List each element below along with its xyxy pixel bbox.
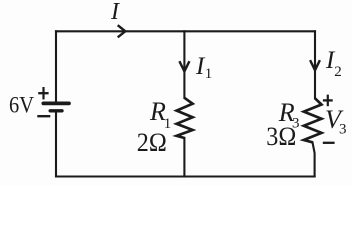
svg-text:1: 1 (205, 66, 213, 82)
svg-text:3: 3 (339, 122, 347, 138)
svg-text:3Ω: 3Ω (266, 122, 296, 151)
svg-text:6V: 6V (9, 92, 34, 117)
svg-text:2Ω: 2Ω (137, 128, 167, 157)
svg-text:I: I (110, 0, 120, 25)
svg-text:2: 2 (334, 64, 342, 80)
